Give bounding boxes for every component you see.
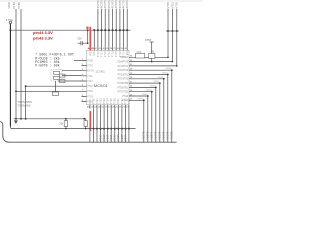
svg-text:PTD2/TA0: PTD2/TA0 xyxy=(118,69,129,72)
svg-text:VSS: VSS xyxy=(90,99,92,104)
wire: left pin row0 xyxy=(74,59,82,61)
top pin numbers xyxy=(95,48,128,50)
svg-text:PTE2: PTE2 xyxy=(101,98,103,104)
outer loop wire xyxy=(0,122,177,143)
left pin stubs xyxy=(82,60,87,101)
svg-text:VT25: VT25 xyxy=(175,1,179,8)
svg-text:GN75: GN75 xyxy=(138,98,144,100)
wire: left vertical net PTB5 xyxy=(20,9,22,120)
svg-text:IRQ: IRQ xyxy=(127,51,129,55)
wire: right pin 22 staircase xyxy=(134,92,152,143)
svg-text:GN65: GN65 xyxy=(142,94,148,96)
svg-text:PTE6: PTE6 xyxy=(115,98,117,104)
wire: long net to PTB5 xyxy=(16,90,82,92)
wire: right pin 24 staircase xyxy=(134,83,160,142)
wire: left pin row4 xyxy=(58,80,82,82)
svg-text:PTG1: PTG1 xyxy=(122,100,129,102)
right pin numbers xyxy=(130,56,133,101)
svg-text:1CN01: 1CN01 xyxy=(96,70,106,74)
svg-text:PTB6: PTB6 xyxy=(87,60,93,62)
svg-text:PTC7: PTC7 xyxy=(123,50,125,57)
svg-text:PTA7: PTA7 xyxy=(87,80,93,83)
wire: drop to bypass cap xyxy=(85,30,88,43)
gnd rail lower with corner xyxy=(10,127,135,129)
load cap C11 xyxy=(60,74,66,77)
left pin names (inside) xyxy=(87,60,95,103)
top bus 3.3V with junction dots xyxy=(91,29,131,31)
wire: right pin 27 staircase xyxy=(134,70,172,142)
svg-text:T2/5A/5N6: T2/5A/5N6 xyxy=(18,104,31,108)
wire: xtal to EXTAL xyxy=(62,70,82,72)
svg-text:RESET: RESET xyxy=(121,57,129,59)
staircase net labels xyxy=(142,131,174,140)
capacitor C10 xyxy=(53,92,59,96)
wire: right pin 23 staircase xyxy=(134,87,156,142)
svg-text:5.T5A: 5.T5A xyxy=(6,18,13,22)
junction dot xyxy=(87,29,89,31)
svg-text:GN05: GN05 xyxy=(166,68,172,70)
svg-text:XTAL: XTAL xyxy=(87,75,93,78)
svg-text:pin43 3.3V: pin43 3.3V xyxy=(33,36,53,41)
svg-text:PD0T5: PD0T5 xyxy=(170,131,174,140)
wire: crystal left xyxy=(55,81,57,92)
bottom wires down to bottom rail xyxy=(94,109,129,143)
wire: long net to PTB4 xyxy=(26,85,82,87)
svg-text:GN35: GN35 xyxy=(154,81,160,83)
wire: row0 to vert xyxy=(134,56,168,58)
top pin names (inside) xyxy=(91,50,130,57)
svg-text:PE3T: PE3T xyxy=(109,134,113,141)
capacitor C06 xyxy=(78,41,85,45)
svg-text:PC7T5: PC7T5 xyxy=(121,0,125,8)
wire: right pin 25 staircase xyxy=(134,79,164,142)
wire: xtal to XTAL xyxy=(62,75,82,77)
svg-text:PTG0: PTG0 xyxy=(122,96,129,98)
load cap C12 xyxy=(60,80,66,83)
svg-text:PTD3/TA1: PTD3/TA1 xyxy=(118,73,129,76)
svg-text:PTC2: PTC2 xyxy=(105,50,107,57)
svg-text:PE4T: PE4T xyxy=(113,134,117,141)
svg-text:PC5T5: PC5T5 xyxy=(114,0,118,8)
highlight bar pin12 (red) xyxy=(89,111,91,131)
svg-text:PTE5: PTE5 xyxy=(111,98,113,104)
svg-text:PTD6/TB1: PTD6/TB1 xyxy=(117,87,128,89)
annotation pin44/pin43 3.3V xyxy=(33,30,53,41)
svg-text:GN25: GN25 xyxy=(158,77,164,79)
svg-text:C06: C06 xyxy=(77,37,82,40)
svg-text:SDA/PTA0: SDA/PTA0 xyxy=(117,61,129,64)
svg-text:PC0T5: PC0T5 xyxy=(96,0,100,8)
svg-text:P-50T9 : 50k: P-50T9 : 50k xyxy=(35,64,59,69)
svg-text:GN45: GN45 xyxy=(150,85,156,87)
crystal Y1 xyxy=(54,71,60,74)
svg-text:PTA6: PTA6 xyxy=(87,85,93,88)
svg-text:GN15: GN15 xyxy=(162,73,168,75)
svg-text:TA2/5A5/5N: TA2/5A5/5N xyxy=(18,100,32,104)
top-right vertical nets xyxy=(168,9,177,66)
svg-text:VSS: VSS xyxy=(94,51,96,56)
gnd rail upper xyxy=(14,118,87,120)
svg-text:PTB7: PTB7 xyxy=(87,66,93,68)
svg-text:PTD0: PTD0 xyxy=(87,96,94,98)
svg-text:PTD4/TA2: PTD4/TA2 xyxy=(118,78,129,81)
svg-text:PD2T5: PD2T5 xyxy=(162,131,166,140)
svg-text:PC4T5: PC4T5 xyxy=(111,0,115,8)
svg-text:C04: C04 xyxy=(137,51,142,54)
top pin stubs xyxy=(91,47,128,50)
power port 3.3V symbol xyxy=(9,21,11,23)
right pin names (inside) xyxy=(117,57,129,102)
frame top edge xyxy=(0,0,203,2)
svg-text:PTE1: PTE1 xyxy=(97,98,99,104)
svg-text:PE1T: PE1T xyxy=(102,134,106,141)
svg-text:PTE7: PTE7 xyxy=(118,98,120,104)
svg-text:PTE3: PTE3 xyxy=(104,98,106,104)
capacitor C09 xyxy=(84,121,88,127)
svg-text:PD1T5: PD1T5 xyxy=(166,131,170,140)
svg-text:PC6T5: PC6T5 xyxy=(118,0,122,8)
svg-text:SCL/PTA1: SCL/PTA1 xyxy=(118,65,129,68)
svg-text:PTB4: PTB4 xyxy=(12,2,16,9)
red junction highlight xyxy=(86,27,88,29)
wire: left vertical net (mid) xyxy=(25,86,27,119)
svg-text:VT05: VT05 xyxy=(166,1,170,8)
svg-text:pin44 3.3V: pin44 3.3V xyxy=(33,30,53,35)
capacitor C08 xyxy=(64,121,68,127)
wire: left vertical net PTB4 xyxy=(15,9,17,120)
svg-text:VT15: VT15 xyxy=(170,1,174,8)
svg-text:PD4T5: PD4T5 xyxy=(154,131,158,140)
svg-text:C08: C08 xyxy=(59,123,64,126)
svg-text:PTC0: PTC0 xyxy=(98,50,100,57)
svg-text:PTC5: PTC5 xyxy=(116,50,118,57)
bottom pin numbers xyxy=(91,107,130,109)
left pin numbers xyxy=(82,59,84,102)
svg-text:PE2T: PE2T xyxy=(106,134,110,141)
comment text block xyxy=(35,53,74,69)
svg-text:PTB5: PTB5 xyxy=(17,2,21,9)
top net labels xyxy=(96,0,129,8)
bottom pin names (inside) xyxy=(90,98,131,104)
svg-text:PTD7/TB2: PTD7/TB2 xyxy=(117,92,128,94)
svg-text:PC2T5: PC2T5 xyxy=(103,0,107,8)
series component C04 xyxy=(136,53,145,58)
wire: right pin 26 staircase xyxy=(134,75,168,143)
MCU U1 body xyxy=(87,50,130,104)
svg-text:PTE4: PTE4 xyxy=(108,98,110,104)
top vertical wires to top edge xyxy=(98,9,127,48)
bottom net labels xyxy=(99,134,128,141)
wire: pin43 from bus xyxy=(93,30,95,47)
svg-text:PTC4: PTC4 xyxy=(113,50,115,57)
corner dots top right xyxy=(167,57,169,59)
bottom pin stubs xyxy=(90,105,129,109)
wire: 3.3V rail thick vertical xyxy=(9,24,11,127)
right pin stubs xyxy=(129,57,134,100)
svg-text:PD7T5: PD7T5 xyxy=(142,131,146,140)
svg-text:VDD: VDD xyxy=(91,51,93,56)
svg-text:GN55: GN55 xyxy=(146,90,152,92)
svg-text:PC1T5: PC1T5 xyxy=(100,0,104,8)
svg-text:PTA5: PTA5 xyxy=(87,90,93,93)
svg-text:PTC6: PTC6 xyxy=(120,50,122,57)
svg-text:PC3T5: PC3T5 xyxy=(107,0,111,8)
svg-text:PTE0: PTE0 xyxy=(93,98,95,104)
svg-text:PE6T: PE6T xyxy=(120,134,124,141)
wire: row1 xyxy=(134,61,173,63)
ground symbol xyxy=(14,120,18,124)
svg-text:PD3T5: PD3T5 xyxy=(158,131,162,140)
svg-text:PTC1: PTC1 xyxy=(102,50,104,57)
left bottom net labels xyxy=(18,100,32,108)
wire: 3.3V supply horizontal to pin44 xyxy=(10,29,90,31)
svg-text:PE5T: PE5T xyxy=(116,134,120,141)
svg-text:PE7T: PE7T xyxy=(123,134,127,141)
svg-text:PTD5/TB0: PTD5/TB0 xyxy=(117,83,128,85)
svg-text:PD5T5: PD5T5 xyxy=(150,131,154,140)
wire: right pin 20 staircase xyxy=(134,100,144,142)
svg-text:MC9/01: MC9/01 xyxy=(94,83,109,88)
highlight bar pin44 (red) xyxy=(89,27,91,50)
svg-text:PD6T5: PD6T5 xyxy=(146,131,150,140)
wire: pin12 below highlight xyxy=(89,131,91,142)
svg-text:PE0T: PE0T xyxy=(99,134,103,141)
top-left net labels xyxy=(7,2,21,9)
wire: row2 xyxy=(134,65,177,67)
junction bus top right xyxy=(166,30,179,32)
svg-text:EXTAL: EXTAL xyxy=(87,70,95,73)
svg-text:PC8T5: PC8T5 xyxy=(125,0,129,8)
svg-text:PTC3: PTC3 xyxy=(109,50,111,57)
wire: right pin 21 staircase xyxy=(134,96,148,142)
svg-text:VD33: VD33 xyxy=(7,2,11,9)
crystal group dashed box xyxy=(51,70,62,82)
junction dot xyxy=(10,29,12,31)
